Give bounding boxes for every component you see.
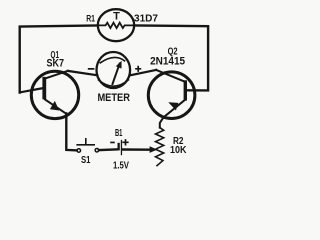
svg-text:B1: B1 [115, 128, 123, 139]
svg-text:10K: 10K [170, 145, 187, 156]
Q2 base bar [184, 80, 187, 100]
svg-text:S1: S1 [81, 154, 91, 166]
meter needle [113, 64, 120, 85]
meter scale top arc [100, 57, 124, 62]
Q1 emitter lead [45, 100, 68, 115]
wire Q1 emitter down to S1 [66, 114, 77, 151]
switch S1 left contact [77, 149, 81, 153]
Q1 base bar [42, 77, 46, 99]
label minus (battery) [110, 142, 115, 144]
Q1 collector lead [45, 71, 68, 79]
wire battery to R2 wiper [122, 148, 150, 151]
wire meter to Q2 collector [130, 70, 156, 75]
switch S1 right contact [95, 148, 99, 152]
R2 wiper arrowhead [150, 146, 158, 153]
meter bottom arc [99, 80, 129, 86]
transistor Q2 circle [148, 72, 195, 119]
label plus (battery) [123, 140, 128, 145]
switch S1 stem [85, 139, 87, 145]
wire top right segment [134, 25, 208, 90]
transistor Q1 circle [31, 71, 78, 118]
svg-text:31D7: 31D7 [134, 13, 158, 25]
battery B1 long plate [121, 140, 122, 155]
label plus (meter) [136, 67, 140, 71]
meter M1 circle [97, 52, 131, 88]
svg-text:1.5V: 1.5V [113, 160, 129, 171]
label minus (meter) [88, 68, 95, 70]
wire Q1 collector to meter [68, 71, 98, 75]
battery B1 short plate [118, 143, 120, 151]
svg-text:R1: R1 [86, 13, 95, 23]
svg-text:METER: METER [97, 92, 130, 104]
svg-text:T: T [113, 10, 120, 22]
Q2 emitter arrowhead [168, 102, 178, 110]
Q2 emitter lead [160, 100, 185, 128]
thermistor R1 circle [98, 9, 134, 41]
Q2 collector lead [156, 70, 184, 82]
svg-text:SK7: SK7 [47, 57, 65, 69]
switch S1 actuator bar [77, 144, 94, 146]
wire S1 to battery [99, 148, 118, 151]
resistor R2 zigzag [156, 128, 164, 166]
svg-text:2N1415: 2N1415 [150, 56, 185, 68]
meter needle arrowhead [116, 61, 122, 69]
resistor R1 zigzag element [98, 23, 134, 28]
wire Q1 base [20, 88, 43, 92]
wire left rail [20, 26, 98, 93]
Q1 emitter arrowhead [50, 101, 59, 111]
